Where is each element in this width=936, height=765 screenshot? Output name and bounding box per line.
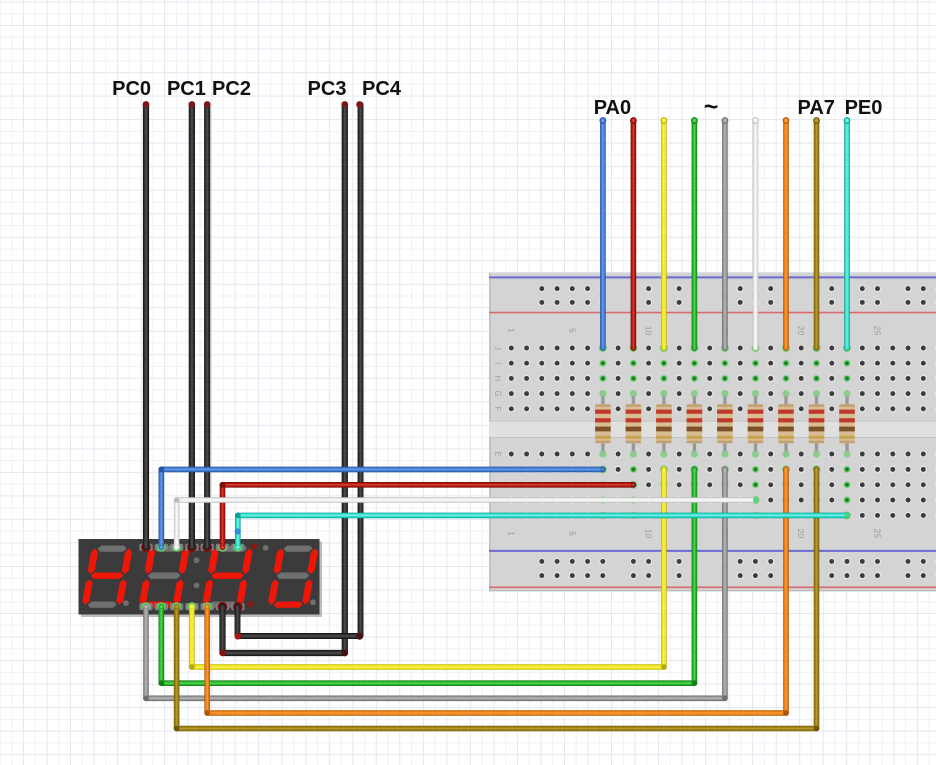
svg-text:E: E — [493, 451, 502, 456]
resistor R6 — [748, 391, 764, 457]
display digit1 H — [81, 546, 133, 608]
svg-text:PC0: PC0 — [112, 78, 151, 100]
svg-text:J: J — [493, 346, 502, 350]
breadboard labels — [493, 326, 883, 539]
svg-text:10: 10 — [644, 326, 654, 336]
wire white from display top pin to row B — [752, 496, 760, 504]
display digit4 U — [267, 546, 319, 608]
wire blue from display top pin to row D — [599, 466, 607, 474]
svg-text:20: 20 — [796, 326, 806, 336]
display pads — [139, 544, 152, 551]
svg-text:~: ~ — [704, 93, 719, 121]
wire cyan top vertical to row J — [843, 344, 851, 352]
wire orange top vertical to row J — [782, 344, 790, 352]
wire green from display pin to breadboard — [691, 466, 699, 474]
svg-text:PC4: PC4 — [362, 78, 402, 100]
resistor R2 — [626, 391, 642, 457]
wire red from display top pin to row C — [630, 481, 638, 489]
wire PC1 (black) — [189, 105, 195, 548]
breadboard body — [489, 273, 936, 592]
4-digit 7-segment display U1 — [81, 542, 322, 618]
svg-text:I: I — [493, 362, 502, 364]
resistor R9 — [839, 391, 855, 457]
svg-text:20: 20 — [796, 529, 806, 539]
resistor R5 — [717, 391, 733, 457]
wire green top vertical to row J — [690, 344, 698, 352]
green connected-strip dots — [599, 344, 851, 519]
resistor R7 — [778, 391, 794, 457]
breadboard holes — [508, 285, 936, 579]
svg-text:PA7: PA7 — [797, 97, 834, 119]
wire yellow top vertical to row J — [660, 344, 668, 352]
wire gray from display pin to breadboard — [721, 466, 729, 474]
wire PC0 (black) — [143, 105, 149, 548]
svg-text:5: 5 — [567, 328, 577, 333]
display digit2 U — [138, 546, 190, 608]
wire cyan from display top pin to row A — [843, 512, 851, 520]
display digit3 H — [202, 546, 254, 608]
svg-text:10: 10 — [644, 529, 654, 539]
svg-text:1: 1 — [506, 328, 516, 333]
svg-text:25: 25 — [873, 326, 883, 336]
svg-text:G: G — [493, 390, 502, 396]
display dots — [123, 600, 129, 606]
resistor R3 — [656, 391, 672, 457]
wire PC3 (black) — [223, 105, 345, 654]
wire yellow from display pin to breadboard — [660, 466, 668, 474]
svg-text:PC3: PC3 — [308, 78, 347, 100]
svg-text:25: 25 — [873, 529, 883, 539]
cyan wire bendpoint dot — [235, 528, 241, 534]
svg-text:5: 5 — [567, 531, 577, 536]
wire brown from display pin to breadboard — [813, 466, 821, 474]
wire orange from display pin to breadboard — [782, 466, 790, 474]
resistor R1 — [595, 391, 611, 457]
svg-text:PA0: PA0 — [594, 97, 631, 119]
wire PC4 (black) — [238, 105, 361, 637]
wire gray top vertical to row J — [721, 344, 729, 352]
svg-text:PC1: PC1 — [167, 78, 206, 100]
svg-text:1: 1 — [506, 531, 516, 536]
wire white top vertical to row J — [752, 344, 760, 352]
resistor R4 — [687, 391, 703, 457]
wire brown top vertical to row J — [813, 344, 821, 352]
resistor R8 — [809, 391, 825, 457]
wire PC2 (black) — [204, 105, 210, 548]
wire blue top vertical to row J — [599, 344, 607, 352]
svg-text:F: F — [493, 406, 502, 411]
wire red top vertical to row J — [629, 344, 637, 352]
svg-text:PE0: PE0 — [845, 97, 883, 119]
svg-text:PC2: PC2 — [212, 78, 251, 100]
svg-text:H: H — [493, 376, 502, 382]
